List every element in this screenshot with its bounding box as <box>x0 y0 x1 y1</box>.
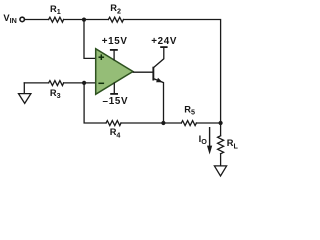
resistor R2 <box>108 17 123 22</box>
svg-text:–15V: –15V <box>103 96 129 107</box>
resistor R3 <box>49 81 64 86</box>
wire junction to plus input <box>84 20 96 59</box>
current arrow IO <box>207 127 212 155</box>
svg-text:+15V: +15V <box>102 36 128 47</box>
op-amp plus input symbol <box>99 54 105 60</box>
power +24V supply bar <box>160 46 167 48</box>
wire op-amp output to base <box>133 71 153 73</box>
wire R3 to inverting input <box>64 82 96 84</box>
node emitter junction <box>161 121 165 125</box>
op-amp minus input symbol <box>98 82 104 84</box>
resistor RL <box>218 136 224 154</box>
wire inverting node down to bottom rail <box>84 83 106 123</box>
resistor R4 <box>106 121 121 126</box>
wire R4 to R5 <box>121 122 181 124</box>
wire RL to ground <box>220 154 222 166</box>
resistor R1 <box>49 17 64 22</box>
node junction R1 R2 <box>82 18 86 22</box>
wire VIN to R1 <box>25 19 49 21</box>
node junction inverting input <box>82 81 86 85</box>
power +15V supply <box>110 50 118 60</box>
ground right <box>214 166 226 176</box>
wire load node to RL <box>220 123 222 136</box>
resistor R5 <box>181 121 196 126</box>
wire R5 to load node <box>196 122 220 124</box>
wire R2 to right rail <box>124 20 221 124</box>
wire ground to R3 <box>24 82 48 84</box>
transistor Q1 <box>152 48 163 123</box>
op-amp U1 <box>96 49 133 95</box>
node VIN input terminal <box>20 17 25 22</box>
wire R1 to R2 <box>64 19 109 21</box>
svg-text:+24V: +24V <box>151 36 177 47</box>
ground left <box>19 83 31 104</box>
power -15V supply <box>110 82 118 94</box>
node load junction <box>219 121 223 125</box>
